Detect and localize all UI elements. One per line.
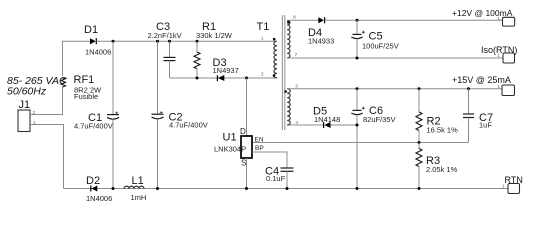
svg-text:T1: T1 [257,21,270,33]
resistor R3 [416,143,458,189]
output port +12V [452,8,515,26]
AC input label [7,75,67,98]
svg-text:1N4006: 1N4006 [85,48,111,57]
node C3 top [168,40,171,43]
svg-text:EN: EN [255,136,264,143]
T1 secondary winding bottom [287,89,290,125]
svg-text:4.7uF/400V: 4.7uF/400V [169,121,208,130]
svg-text:1mH: 1mH [131,193,147,202]
node C5 top [356,19,359,22]
capacitor C4 [265,166,294,189]
svg-text:D2: D2 [86,175,100,187]
node R1 bottom [196,77,199,80]
wire +12V rail [325,19,503,21]
T1 core [281,15,283,130]
wire J1 pin2 to RF1 [30,87,63,115]
svg-text:L1: L1 [132,175,144,187]
node C7 top [467,87,470,90]
diode D2 [86,175,112,203]
svg-text:82uF/35V: 82uF/35V [363,115,396,124]
svg-text:U1: U1 [223,132,237,144]
node C6 bottom [356,187,359,190]
svg-text:+12V @ 100mA: +12V @ 100mA [452,8,513,18]
wire RF1 to D1 [63,41,91,76]
svg-text:D1: D1 [84,24,98,36]
node C4 bottom [286,187,289,190]
node C2 top [156,40,159,43]
resistor R2 [416,89,458,143]
resistor RF1 [61,74,102,101]
capacitor C2 [152,41,208,188]
T1 polarity dots [273,38,276,41]
node U1 source bottom [245,187,248,190]
T1 primary winding [274,41,277,78]
diode D1 [84,24,111,57]
wire T1 pin4 to D5 [290,124,324,126]
svg-text:J1: J1 [19,99,31,111]
wire BP to C4 [252,152,287,168]
svg-text:D: D [240,127,246,136]
svg-text:1uF: 1uF [479,121,492,130]
svg-text:+15V @ 25mA: +15V @ 25mA [452,75,511,85]
T1 secondary winding top [287,20,290,58]
diode D3 [213,57,239,81]
diode D4 [308,17,334,45]
svg-text:RF1: RF1 [74,74,95,86]
IC U1 LNK304P [214,127,264,168]
node C1 bottom [112,187,115,190]
node C5 bottom [356,57,359,60]
output port Iso(RTN) [481,45,517,63]
wire T1 pin8 to D4 [290,19,319,21]
output port RTN [502,175,523,194]
resistor R1 [194,21,233,78]
diode D5 [313,106,340,129]
transformer T1 [257,15,299,131]
svg-text:BP: BP [255,145,264,152]
svg-text:1N4933: 1N4933 [308,37,334,46]
node D5 C6 junction [356,124,359,127]
capacitor C5 [351,20,398,58]
wire clamp line C3 to T1 pin2 [170,77,277,79]
wire drain [246,78,248,136]
capacitor C6 [351,89,395,189]
svg-text:LNK304P: LNK304P [214,145,246,154]
capacitor C7 [463,89,493,143]
node rectified bus at C1 [112,40,115,43]
inductor L1 [124,175,146,202]
svg-text:100uF/25V: 100uF/25V [362,42,399,51]
svg-text:2.05k 1%: 2.05k 1% [426,165,458,174]
svg-text:0.1uF: 0.1uF [266,174,286,183]
node C6 top [356,87,359,90]
node drain junction [245,77,248,80]
wire D1 to T1 pin1 (top rail) [96,40,276,42]
connector J1 [18,99,36,132]
node R3 bottom [418,187,421,190]
svg-text:330k 1/2W: 330k 1/2W [196,31,233,40]
wire T1 pin7 Iso rail [290,57,504,59]
node R2 R3 EN junction [418,141,421,144]
node C2 bottom [156,187,159,190]
wire U1 source to bottom rail [246,158,248,189]
svg-text:2.2nF/1kV: 2.2nF/1kV [148,31,182,40]
node R1 top [196,40,199,43]
wire J1 pin1 to bottom rail [30,125,64,189]
svg-text:Fusible: Fusible [74,92,98,101]
wire EN feedback line [252,142,469,144]
svg-text:1N4006: 1N4006 [86,194,112,203]
svg-text:1N4148: 1N4148 [314,115,340,124]
svg-text:4.7uF/400V: 4.7uF/400V [74,122,113,131]
node R2 top [418,87,421,90]
wire bottom rail [64,188,509,190]
wire T1 pin3 +15V rail [290,88,503,90]
svg-text:1N4937: 1N4937 [213,66,239,75]
svg-text:16.5k 1%: 16.5k 1% [427,126,459,135]
wire D5 to C6 column [331,124,358,126]
svg-text:S: S [241,159,246,168]
output port +15V [452,75,515,96]
capacitor C1 [74,41,119,188]
svg-text:50/60Hz: 50/60Hz [7,86,47,98]
capacitor C3 [148,21,182,78]
